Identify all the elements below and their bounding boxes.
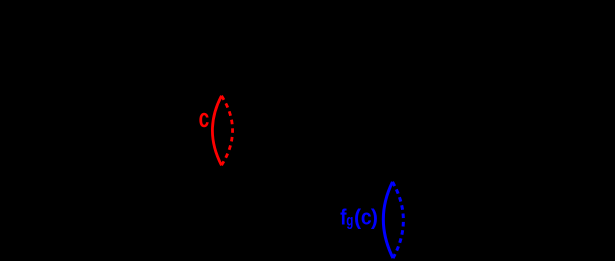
svg-text:): ) [371, 204, 378, 230]
svg-text:c: c [199, 103, 210, 133]
svg-text:g: g [346, 212, 353, 229]
